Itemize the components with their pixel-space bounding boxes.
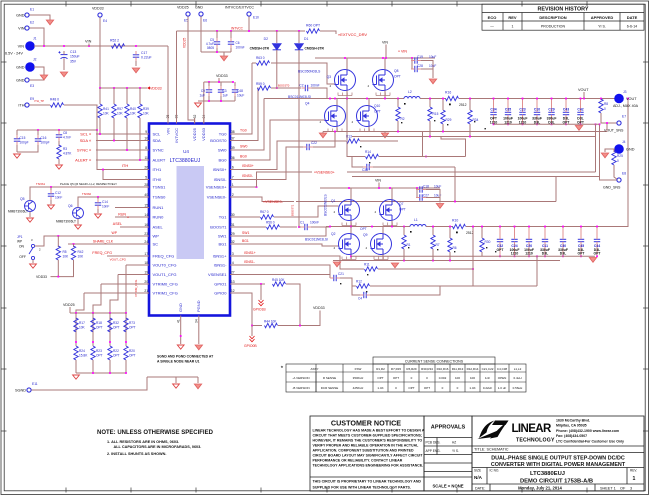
wire bbox=[110, 275, 118, 339]
junction bbox=[139, 159, 141, 161]
wire E5-VDD25 bbox=[188, 17, 195, 124]
svg-text:1210: 1210 bbox=[519, 120, 527, 124]
svg-text:HOWEVER, IT REMAINS THE CUSTOM: HOWEVER, IT REMAINS THE CUSTOMER'S RESPO… bbox=[313, 439, 423, 443]
svg-text:19: 19 bbox=[144, 270, 148, 274]
junction bbox=[113, 87, 115, 89]
wire L1-R10 bbox=[426, 226, 453, 228]
U4 pin 24 SC bbox=[144, 243, 150, 245]
resistor R6 bbox=[448, 238, 452, 252]
svg-text:SC: SC bbox=[153, 241, 159, 246]
svg-text:23: 23 bbox=[144, 232, 148, 236]
junction bbox=[92, 341, 94, 343]
U4 pin 15 RUN1 bbox=[144, 207, 150, 209]
wire bbox=[84, 292, 144, 294]
wire GPIO0 bbox=[236, 293, 263, 326]
wire ISNS1- bbox=[236, 265, 331, 278]
svg-text:CURRENT SENSE CONNECTIONS: CURRENT SENSE CONNECTIONS bbox=[405, 359, 464, 363]
svg-text:FREQ_CFG: FREQ_CFG bbox=[153, 253, 175, 258]
wire C14 top bbox=[97, 197, 99, 200]
svg-text:C35: C35 bbox=[505, 107, 511, 111]
svg-text:BSC050N03LS: BSC050N03LS bbox=[324, 194, 328, 216]
svg-text:D2: D2 bbox=[264, 37, 268, 41]
svg-text:DUAL-PHASE SINGLE OUTPUT STEP-: DUAL-PHASE SINGLE OUTPUT STEP-DOWN DC/DC bbox=[491, 456, 625, 462]
svg-text:GPIO0B: GPIO0B bbox=[244, 344, 257, 348]
ground output ph1 bbox=[589, 258, 596, 263]
U4 pin 6 ISNS0+ bbox=[230, 169, 236, 171]
junction bbox=[208, 100, 210, 102]
svg-text:ISNS0+: ISNS0+ bbox=[242, 164, 254, 168]
wire gnd tie 2 bbox=[197, 377, 199, 383]
svg-text:ISNS0-: ISNS0- bbox=[214, 177, 228, 182]
wire VSENSE0+ a bbox=[257, 172, 313, 187]
wire bbox=[449, 227, 451, 239]
wire Q9 source bbox=[382, 255, 384, 260]
svg-text:SW1: SW1 bbox=[218, 233, 227, 238]
connector J3 bbox=[615, 94, 624, 103]
U4 pin 30 TG1 bbox=[230, 216, 236, 218]
svg-text:BOOST0: BOOST0 bbox=[278, 84, 290, 88]
svg-text:BG1: BG1 bbox=[218, 241, 227, 246]
wire sense bus B bbox=[352, 136, 596, 138]
svg-text:C4,C38: C4,C38 bbox=[497, 367, 508, 371]
wire GPIO0B stub bbox=[251, 326, 253, 337]
svg-text:TITLE: SCHEMATIC: TITLE: SCHEMATIC bbox=[474, 448, 509, 452]
svg-text:VSENSE0-: VSENSE0- bbox=[207, 194, 227, 199]
ground bbox=[40, 75, 47, 80]
svg-text:SDA: SDA bbox=[80, 138, 89, 143]
wire R14 right bbox=[379, 156, 466, 158]
wire VDD25 bus bbox=[70, 312, 126, 314]
wire C12 bot bbox=[50, 200, 52, 204]
svg-text:VTRIM0_CFG: VTRIM0_CFG bbox=[153, 281, 178, 286]
resistor R18 bbox=[91, 318, 95, 332]
svg-text:10K: 10K bbox=[63, 255, 70, 259]
wire R11 right bbox=[378, 268, 473, 270]
wire R39-ALERT bbox=[139, 118, 141, 160]
junction bbox=[411, 57, 413, 59]
svg-text:R59 0: R59 0 bbox=[256, 82, 265, 86]
junction bbox=[580, 98, 582, 100]
svg-text:«: « bbox=[127, 215, 129, 219]
wire C27 right bbox=[426, 197, 440, 199]
wire Q3 source bbox=[346, 91, 348, 99]
svg-text:SCL: SCL bbox=[80, 131, 89, 136]
wire R5 bot bbox=[51, 260, 59, 277]
svg-text:PRODUCTION: PRODUCTION bbox=[541, 24, 566, 28]
svg-text:R6,R29: R6,R29 bbox=[406, 367, 417, 371]
wire C30 top bbox=[562, 227, 564, 237]
U4 pin 16 ASEL bbox=[144, 226, 150, 228]
svg-text:OPEN: OPEN bbox=[498, 376, 507, 380]
svg-text:OPT: OPT bbox=[374, 110, 381, 114]
Linear Technology logo bbox=[478, 421, 509, 440]
wire C38 join bbox=[454, 167, 456, 202]
svg-text:1.4K: 1.4K bbox=[469, 386, 475, 390]
wire R17 top bbox=[75, 313, 77, 318]
revision history table bbox=[482, 4, 644, 30]
svg-text:R42: R42 bbox=[78, 250, 84, 254]
wire R41 top bbox=[99, 88, 101, 104]
Q10 pins bbox=[360, 129, 374, 132]
svg-text:BOOST0: BOOST0 bbox=[210, 138, 227, 143]
capacitor C11 bbox=[542, 236, 548, 246]
svg-text:«VSENSE0+: «VSENSE0+ bbox=[314, 171, 335, 175]
wire FREQ_CFG bbox=[107, 255, 144, 257]
Q8 pins bbox=[376, 93, 390, 96]
svg-text:R8: R8 bbox=[604, 102, 608, 106]
U4 pin 34 VDD33 bbox=[203, 118, 205, 124]
svg-text:GND: GND bbox=[195, 6, 203, 10]
wire bbox=[442, 99, 444, 111]
wire BG0 bbox=[236, 120, 325, 160]
svg-text:C1: C1 bbox=[300, 221, 304, 225]
resistor R15 bbox=[428, 107, 432, 121]
junction bbox=[536, 255, 538, 257]
wire ISNS1+ bbox=[236, 256, 365, 269]
svg-text:40: 40 bbox=[144, 193, 148, 197]
svg-text:Q9: Q9 bbox=[363, 233, 368, 237]
U4 pin 13 GPIO1 bbox=[230, 283, 236, 285]
svg-text:Fax: (408)434-0507: Fax: (408)434-0507 bbox=[556, 434, 587, 438]
svg-text:10nF: 10nF bbox=[102, 205, 109, 209]
svg-text:BOOST1: BOOST1 bbox=[291, 204, 295, 216]
wire R42 top bbox=[73, 244, 75, 247]
wire pullup bus bbox=[100, 87, 147, 89]
svg-text:20: 20 bbox=[144, 280, 148, 284]
ground R3 bbox=[56, 165, 63, 169]
svg-text:GND: GND bbox=[626, 148, 635, 152]
junction bbox=[429, 98, 431, 100]
wire R25 top bbox=[613, 149, 615, 152]
wire Q1 drain bbox=[350, 188, 352, 200]
junction bbox=[627, 98, 629, 100]
svg-text:R5: R5 bbox=[63, 250, 67, 254]
ground ladder bbox=[73, 375, 80, 379]
wire C18 left bbox=[416, 188, 418, 198]
svg-text:WP: WP bbox=[112, 231, 118, 235]
svg-text:GND: GND bbox=[16, 14, 25, 18]
wire C18C27 right bbox=[426, 190, 440, 203]
junction bbox=[344, 57, 346, 59]
wire C42 top bbox=[580, 99, 582, 110]
wire VSENSE0- riser bbox=[555, 177, 557, 202]
ground Q4 bbox=[319, 133, 326, 138]
svg-text:OPT: OPT bbox=[394, 75, 401, 79]
svg-text:1210: 1210 bbox=[504, 120, 512, 124]
wire VIN rail ph1 bbox=[320, 187, 440, 189]
junction bbox=[472, 268, 474, 270]
junction bbox=[522, 98, 524, 100]
U4 pin 4 ISNS1- bbox=[230, 264, 236, 266]
svg-text:YI S.: YI S. bbox=[452, 449, 459, 453]
junction bbox=[382, 57, 384, 59]
wire C48 top bbox=[234, 82, 236, 86]
svg-text:WP: WP bbox=[153, 233, 160, 238]
wire C34 top bbox=[493, 99, 495, 110]
svg-text:R20: R20 bbox=[129, 349, 135, 353]
svg-text:INTVCC: INTVCC bbox=[231, 27, 244, 31]
svg-text:100: 100 bbox=[470, 376, 475, 380]
transistor Q4 bbox=[325, 106, 346, 127]
svg-text:BG1: BG1 bbox=[242, 239, 249, 243]
svg-text:LTC3880EUJ: LTC3880EUJ bbox=[170, 158, 201, 164]
U4 pin 17 FREQ_CFG bbox=[144, 255, 150, 257]
svg-text:1: 1 bbox=[232, 183, 234, 187]
capacitor C18 bbox=[416, 186, 426, 192]
svg-text:VDD25: VDD25 bbox=[183, 37, 187, 48]
wire R25-E8 bbox=[614, 172, 617, 179]
wire VSENSE0+ pin bbox=[236, 186, 257, 188]
junction bbox=[397, 98, 399, 100]
diode D1 bbox=[295, 44, 303, 50]
svg-text:R32: R32 bbox=[113, 321, 119, 325]
wire C44 bot bbox=[596, 245, 598, 256]
svg-text:DCR SENSE: DCR SENSE bbox=[321, 386, 339, 390]
svg-text:12: 12 bbox=[231, 289, 235, 293]
svg-text:ITH_TP: ITH_TP bbox=[34, 99, 44, 103]
capacitor C24 bbox=[511, 236, 517, 246]
wire D1 cathode BOOST1 bbox=[298, 50, 300, 227]
svg-text:R12,R14: R12,R14 bbox=[467, 367, 479, 371]
svg-text:OPT: OPT bbox=[408, 386, 414, 390]
U4 pin 35 VIN bbox=[167, 118, 169, 124]
svg-text:R34: R34 bbox=[473, 118, 479, 122]
svg-text:VERIFY PROPER AND RELIABLE OPE: VERIFY PROPER AND RELIABLE OPERATION IN … bbox=[313, 444, 420, 448]
junction bbox=[57, 235, 59, 237]
Q7 pins bbox=[383, 223, 397, 226]
svg-text:Q5: Q5 bbox=[20, 197, 25, 201]
svg-text:3: 3 bbox=[232, 252, 234, 256]
svg-text:TSNS1: TSNS1 bbox=[36, 182, 45, 186]
diode D2 bbox=[273, 44, 281, 50]
ground C12 bbox=[48, 205, 55, 209]
svg-text:C42: C42 bbox=[577, 107, 583, 111]
svg-text:1.4K: 1.4K bbox=[377, 386, 383, 390]
wire R44-vdd bbox=[278, 325, 300, 327]
svg-text:C34: C34 bbox=[490, 107, 496, 111]
svg-text:Q2: Q2 bbox=[331, 232, 336, 236]
U4 pin 36 BG0 bbox=[230, 159, 236, 161]
wire ALERT bbox=[96, 159, 144, 161]
transistor Q5 bbox=[25, 201, 36, 212]
terminal E5 bbox=[186, 12, 190, 16]
wire WP bbox=[35, 236, 144, 246]
wire R5 top bbox=[57, 236, 59, 247]
svg-text:R11: R11 bbox=[364, 263, 370, 267]
junction bbox=[562, 255, 564, 257]
wire gndsns run bbox=[352, 176, 600, 178]
svg-text:ISNS0-: ISNS0- bbox=[242, 174, 253, 178]
svg-text:6-6-14: 6-6-14 bbox=[627, 24, 637, 28]
resistor R25 bbox=[612, 151, 616, 165]
svg-text:36: 36 bbox=[231, 156, 235, 160]
wire SHARE_CLK bbox=[68, 243, 144, 245]
wire stair a bbox=[422, 132, 424, 157]
svg-text:RUN0: RUN0 bbox=[153, 214, 165, 219]
junction bbox=[113, 140, 115, 142]
wire Q10 drain bbox=[368, 99, 370, 106]
svg-text:10K: 10K bbox=[130, 112, 137, 116]
svg-text:8: 8 bbox=[145, 146, 147, 150]
svg-text:D3L: D3L bbox=[560, 252, 566, 256]
wire C29 bot bbox=[551, 118, 553, 124]
svg-text:R57: R57 bbox=[117, 107, 123, 111]
svg-text:1210: 1210 bbox=[490, 120, 498, 124]
junction bbox=[507, 123, 509, 125]
svg-text:0.002: 0.002 bbox=[439, 376, 447, 380]
wire VDD33 stub bbox=[218, 78, 220, 82]
svg-text:TECHNOLOGY APPLICATIONS ENGINE: TECHNOLOGY APPLICATIONS ENGINEERING FOR … bbox=[313, 464, 424, 468]
wire out gnd bus ph1 bbox=[351, 255, 595, 257]
svg-text:18: 18 bbox=[144, 261, 148, 265]
junction bbox=[384, 98, 386, 100]
svg-text:PERFORMANCE OR RELIABILITY.: PERFORMANCE OR RELIABILITY. CONTACT LINE… bbox=[313, 459, 403, 463]
wire C44 top bbox=[596, 227, 598, 237]
svg-text:R22: R22 bbox=[113, 349, 119, 353]
svg-text:«VSENSE0-: «VSENSE0- bbox=[263, 200, 284, 204]
capacitor C38 bbox=[363, 164, 373, 170]
svg-text:OF: OF bbox=[620, 486, 626, 490]
wire ITH0 bbox=[103, 170, 144, 180]
ground tie sgnd bbox=[173, 384, 180, 388]
junction bbox=[544, 226, 546, 228]
svg-text:2: 2 bbox=[232, 193, 234, 197]
transistor Q2 bbox=[339, 234, 360, 255]
junction bbox=[449, 226, 451, 228]
svg-text:10K: 10K bbox=[103, 112, 110, 116]
wire bbox=[481, 252, 483, 256]
transistor Q8 bbox=[373, 70, 394, 91]
wire SW0 rail bbox=[264, 98, 404, 100]
svg-text:4.7nF: 4.7nF bbox=[63, 136, 71, 140]
junction bbox=[481, 226, 483, 228]
svg-text:TECHNOLOGY: TECHNOLOGY bbox=[516, 438, 555, 444]
svg-text:0.22uF: 0.22uF bbox=[483, 386, 493, 390]
resistor R59 bbox=[258, 86, 271, 90]
wire bbox=[126, 264, 144, 266]
svg-text:VDD25: VDD25 bbox=[63, 303, 75, 307]
U4 pin 41 GND bbox=[180, 316, 182, 322]
junction bbox=[37, 129, 39, 131]
junction bbox=[63, 45, 65, 47]
resistor R24 bbox=[74, 346, 78, 360]
junction bbox=[92, 372, 94, 374]
junction bbox=[334, 98, 336, 100]
svg-text:9: 9 bbox=[145, 130, 147, 134]
junction bbox=[499, 255, 501, 257]
wire C24 top bbox=[514, 227, 516, 237]
svg-text:LTC3880EUJ: LTC3880EUJ bbox=[530, 471, 565, 477]
wire Q7 source bbox=[391, 221, 393, 227]
U4 pin 27 VSENSE1 bbox=[230, 274, 236, 276]
junction bbox=[329, 226, 331, 228]
svg-text:C12: C12 bbox=[55, 191, 61, 195]
capacitor C3 bbox=[218, 86, 224, 96]
junction bbox=[126, 87, 128, 89]
wire bbox=[442, 124, 444, 132]
svg-text:D3L: D3L bbox=[542, 252, 548, 256]
svg-text:150uF: 150uF bbox=[70, 55, 80, 59]
svg-text:MMBT3906LT: MMBT3906LT bbox=[56, 220, 76, 224]
svg-text:15: 15 bbox=[144, 203, 148, 207]
resistor R12 bbox=[357, 284, 370, 288]
capacitor C28 bbox=[411, 66, 421, 72]
wire Q8 source bbox=[384, 91, 386, 99]
svg-text:R48 0: R48 0 bbox=[50, 98, 59, 102]
svg-text:27: 27 bbox=[231, 270, 235, 274]
svg-text:THIS CIRCUIT IS PROPRIETARY TO: THIS CIRCUIT IS PROPRIETARY TO LINEAR TE… bbox=[313, 480, 422, 484]
svg-text:E6: E6 bbox=[203, 19, 207, 23]
transistor Q7 bbox=[380, 200, 401, 221]
svg-text:OPT: OPT bbox=[424, 386, 430, 390]
svg-text:C8: C8 bbox=[63, 131, 67, 135]
svg-text:PCB DES.: PCB DES. bbox=[426, 441, 441, 445]
op-amp U4 LTC3880EUJ controller IC body bbox=[149, 124, 230, 316]
wire C29 top bbox=[551, 99, 553, 110]
svg-text:APP ENG.: APP ENG. bbox=[426, 449, 441, 453]
junction bbox=[125, 372, 127, 374]
svg-text:DATE: DATE bbox=[627, 15, 638, 20]
capacitor C12 bbox=[48, 190, 54, 200]
svg-text:VIN: VIN bbox=[382, 41, 388, 45]
U4 pin 12 GPIO0 bbox=[230, 292, 236, 294]
svg-text:34: 34 bbox=[195, 319, 199, 323]
svg-text:Q10: Q10 bbox=[374, 104, 380, 108]
svg-text:14: 14 bbox=[144, 213, 148, 217]
junction bbox=[371, 226, 373, 228]
svg-text:1210: 1210 bbox=[525, 252, 533, 256]
junction bbox=[389, 187, 391, 189]
svg-text:10K: 10K bbox=[78, 255, 85, 259]
svg-text:VIN: VIN bbox=[85, 40, 92, 44]
svg-text:E10: E10 bbox=[253, 16, 259, 20]
junction bbox=[580, 255, 582, 257]
resistor R45 bbox=[273, 282, 286, 286]
svg-text:10: 10 bbox=[144, 136, 148, 140]
capacitor C8 bbox=[56, 131, 62, 141]
svg-text:VDD33: VDD33 bbox=[201, 127, 206, 141]
junction bbox=[397, 131, 399, 133]
junction bbox=[385, 57, 387, 59]
wire C38 left bbox=[352, 157, 363, 167]
svg-text:LINEAR TECHNOLOGY HAS MADE A B: LINEAR TECHNOLOGY HAS MADE A BEST EFFORT… bbox=[313, 429, 425, 433]
capacitor C42 bbox=[577, 109, 583, 119]
svg-text:BSC011N03LSI: BSC011N03LSI bbox=[288, 95, 311, 99]
svg-text:VDD33: VDD33 bbox=[216, 74, 228, 78]
svg-text:2512: 2512 bbox=[459, 103, 467, 107]
svg-text:ALERT: ALERT bbox=[153, 157, 166, 162]
svg-text:R7,R15: R7,R15 bbox=[391, 367, 402, 371]
capacitor C35 bbox=[505, 109, 511, 119]
wire C35 bot bbox=[507, 118, 509, 124]
svg-text:L1: L1 bbox=[414, 218, 418, 222]
U4 pin 37 BOOST0 bbox=[230, 140, 236, 142]
wire R17-R24 bbox=[75, 332, 77, 346]
wire Q3 drain bbox=[346, 58, 348, 70]
wire bbox=[432, 227, 434, 236]
wire Q9 drain bbox=[382, 227, 384, 234]
svg-text:6.5V - 24V: 6.5V - 24V bbox=[5, 52, 23, 56]
wire C23 bot bbox=[522, 118, 524, 124]
U4 pin 33 INTVCC bbox=[176, 118, 178, 124]
junction bbox=[109, 341, 111, 343]
wire VIN-U4 bbox=[167, 46, 169, 124]
junction bbox=[606, 122, 608, 124]
svg-text:» VIN: » VIN bbox=[398, 50, 407, 54]
junction bbox=[562, 226, 564, 228]
wire R12 right bbox=[370, 285, 537, 287]
svg-text:-A VERSION: -A VERSION bbox=[292, 376, 309, 380]
